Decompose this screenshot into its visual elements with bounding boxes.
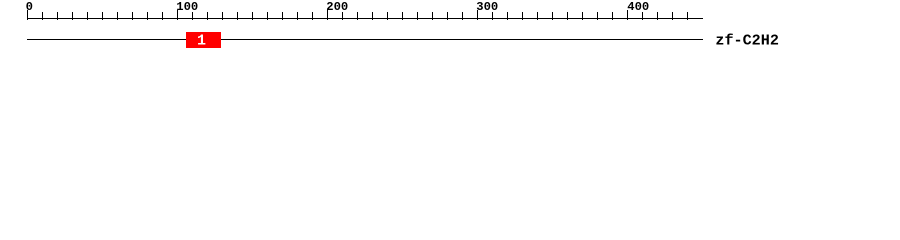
svg-text:300: 300 <box>476 0 498 14</box>
major tick 200 <box>327 10 328 20</box>
major tick 400 <box>627 10 628 20</box>
svg-text:zf-C2H2: zf-C2H2 <box>715 32 779 49</box>
major tick 300 <box>477 10 478 20</box>
svg-text:0: 0 <box>26 0 33 14</box>
major tick 100 <box>177 10 178 20</box>
protein backbone wire <box>27 39 703 40</box>
domain box zf-C2H2 #1 <box>186 32 221 48</box>
svg-text:100: 100 <box>176 0 198 14</box>
background <box>0 0 900 58</box>
major tick 0 <box>27 10 28 20</box>
ruler axis line <box>27 18 703 19</box>
minor ticks every 10 aa <box>42 12 43 20</box>
svg-text:200: 200 <box>326 0 348 14</box>
svg-text:1: 1 <box>197 33 206 50</box>
svg-text:400: 400 <box>627 0 649 14</box>
protein domain graphic: ruler + backbone + zf-C2H2 domain <box>0 0 900 58</box>
